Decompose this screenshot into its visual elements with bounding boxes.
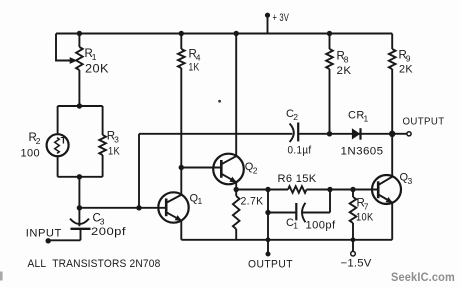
resistor 2.7K	[233, 190, 240, 240]
svg-text:1K: 1K	[189, 62, 200, 74]
wiper arrow R1	[70, 57, 78, 64]
resistor R1 (potentiometer 20K)	[76, 34, 83, 107]
node R7 top	[350, 187, 355, 192]
wire Q2 emitter lead	[235, 182, 237, 190]
node Q2 base tap	[179, 165, 184, 170]
thermistor R2 100	[47, 134, 69, 156]
svg-text:2K: 2K	[337, 65, 352, 77]
node top rail / Q2 collector	[234, 31, 239, 36]
node R6 left / C1	[265, 187, 270, 192]
edge artifact	[0, 272, 3, 281]
label R7	[357, 198, 369, 212]
node top rail / R8	[327, 31, 332, 36]
wire R2 branch top	[57, 106, 59, 135]
node R2 R3 bottom	[77, 174, 82, 179]
input terminal	[46, 238, 51, 243]
svg-text:OUTPUT: OUTPUT	[403, 116, 445, 127]
wire Q1 base	[79, 207, 166, 209]
wire C1 right stub	[329, 190, 331, 213]
label C2	[286, 108, 298, 122]
svg-text:1N3605: 1N3605	[341, 145, 384, 157]
svg-text:20K: 20K	[85, 64, 109, 76]
power terminal -1.5V	[351, 251, 356, 256]
label OUTPUT right	[403, 116, 445, 127]
svg-text:3: 3	[114, 135, 119, 145]
wire Q2 collector	[235, 34, 237, 156]
svg-text:1: 1	[92, 52, 97, 62]
svg-text:10K: 10K	[356, 212, 374, 224]
label R9	[399, 50, 411, 64]
label +3V	[273, 12, 290, 24]
resistor R6 15K	[288, 186, 307, 193]
label C3	[93, 213, 105, 227]
label T inside R2	[61, 136, 67, 146]
svg-text:1: 1	[293, 221, 298, 231]
svg-text:2.7K: 2.7K	[241, 196, 264, 208]
label R7 value 10K	[356, 212, 374, 224]
node R6 right / C1	[327, 187, 332, 192]
label R2	[29, 132, 41, 146]
wire R2-R3 bottom	[58, 176, 103, 178]
svg-text:1: 1	[198, 196, 203, 206]
node R9 bottom / Q3 collector	[389, 131, 395, 137]
label R1 value 20K	[85, 64, 109, 76]
svg-text:SeekIC.com: SeekIC.com	[391, 270, 455, 284]
resistor R9 2K	[389, 34, 396, 134]
label C2 value 0.1uf	[288, 144, 313, 156]
wire Q1 emitter lead	[180, 220, 182, 240]
speck artifact	[218, 100, 221, 103]
resistor R8 2K	[326, 34, 333, 134]
svg-text:INPUT: INPUT	[26, 228, 62, 240]
svg-text:OUTPUT: OUTPUT	[248, 258, 293, 270]
label R8 value 2K	[337, 65, 352, 77]
label R2 value 100	[21, 148, 41, 160]
svg-text:0.1µf: 0.1µf	[288, 144, 313, 156]
power terminal +3V	[265, 13, 270, 34]
output terminal bottom	[266, 252, 271, 257]
svg-text:R6 15K: R6 15K	[278, 173, 317, 185]
wire Q3 emitter lead	[391, 202, 393, 240]
wire CR1 row	[330, 133, 393, 135]
label C3 value 200pf	[91, 226, 127, 238]
label R4 value 1K	[189, 62, 200, 74]
node top rail / R1	[77, 31, 82, 36]
svg-text:1K: 1K	[108, 146, 120, 158]
label R9 value 2K	[399, 64, 413, 76]
wire R6 row	[236, 189, 378, 191]
label R1	[85, 48, 97, 62]
label -1.5V	[341, 257, 372, 269]
svg-text:7: 7	[364, 202, 369, 212]
node top rail / R4	[179, 31, 184, 36]
wire R2 branch bottom	[57, 156, 59, 177]
svg-text:−1.5V: −1.5V	[341, 257, 372, 269]
label R8	[337, 51, 349, 65]
node feedback tap	[136, 205, 141, 210]
node R7 / bottom rail	[351, 237, 356, 242]
label R3 value 1K	[108, 146, 120, 158]
resistor R3 1K	[99, 106, 106, 177]
wire top +3V supply rail	[56, 33, 392, 35]
node Q2 emitter / 2.7K	[234, 187, 239, 192]
capacitor C3 200pf	[70, 208, 91, 241]
watermark SeekIC.com	[391, 270, 455, 284]
note all transistors	[28, 258, 161, 270]
wire R2-R3 top	[58, 105, 103, 107]
svg-text:200pf: 200pf	[91, 226, 127, 238]
svg-text:9: 9	[406, 54, 411, 64]
svg-text:2K: 2K	[399, 64, 413, 76]
transistor Q1	[158, 192, 188, 222]
svg-text:T: T	[61, 136, 67, 146]
label CR1	[348, 110, 369, 124]
node C1 left	[265, 210, 270, 215]
wire input lead	[48, 239, 80, 241]
label C1	[286, 217, 298, 231]
wire Q2 base	[181, 167, 221, 169]
label CR1 value 1N3605	[341, 145, 384, 157]
svg-text:2: 2	[293, 112, 298, 122]
label OUTPUT bottom	[248, 258, 293, 270]
svg-text:ALL TRANSISTORS 2N708: ALL TRANSISTORS 2N708	[28, 258, 161, 270]
wire bias node down lead	[78, 177, 80, 208]
label INPUT	[26, 228, 62, 240]
label Q3	[400, 172, 413, 186]
wire R1 wiper loop	[56, 34, 71, 61]
wire output drop	[267, 213, 269, 254]
label C1 value 100pf	[306, 219, 337, 231]
resistor R4 1K	[178, 34, 185, 195]
transistor Q3	[372, 175, 401, 204]
label 2.7K value	[241, 196, 264, 208]
output terminal right	[407, 132, 411, 136]
wire C1 left stub	[267, 190, 269, 213]
svg-text:2: 2	[253, 165, 258, 175]
svg-text:CR: CR	[348, 110, 365, 122]
resistor R7 10K	[350, 190, 357, 240]
wire -1.5V stub	[352, 240, 354, 252]
node C3 / Q1 base	[77, 205, 82, 210]
capacitor C2 0.1uf	[290, 123, 330, 143]
wire feedback horizontal to C2	[139, 133, 292, 135]
svg-text:100: 100	[21, 148, 41, 160]
node R8 bottom / C2	[327, 131, 332, 136]
wire Q3 collector	[391, 134, 393, 177]
wire feedback vertical	[138, 134, 140, 208]
wire output right lead	[392, 133, 407, 135]
label R4	[189, 49, 201, 63]
label Q2	[245, 161, 258, 175]
svg-text:+ 3V: + 3V	[273, 12, 290, 24]
diode CR1 1N3605	[352, 128, 361, 140]
label Q1	[190, 193, 203, 207]
node output / bottom rail	[266, 237, 271, 242]
wire bottom rail	[181, 239, 392, 241]
svg-text:100pf: 100pf	[306, 219, 337, 231]
svg-text:3: 3	[408, 176, 413, 186]
svg-text:8: 8	[344, 55, 349, 65]
svg-text:1: 1	[364, 114, 369, 124]
label R3	[107, 131, 119, 145]
node R1 bottom / R2 R3 top	[77, 103, 82, 108]
label R6 15K	[278, 173, 317, 185]
transistor Q2	[213, 154, 244, 185]
capacitor C1 100pf	[268, 203, 330, 222]
svg-text:2: 2	[36, 136, 41, 146]
